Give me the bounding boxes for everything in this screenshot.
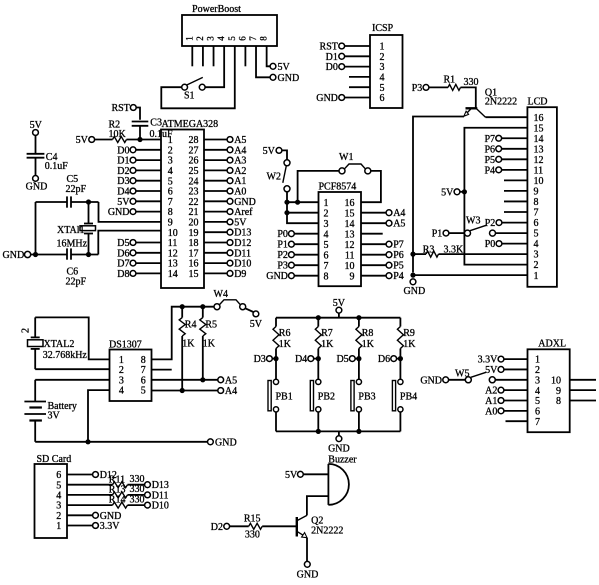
jumper W3 bbox=[465, 215, 528, 236]
wire R3 to LCD pin 3 bbox=[439, 253, 528, 255]
svg-text:PB3: PB3 bbox=[358, 392, 375, 403]
svg-text:8: 8 bbox=[556, 396, 561, 407]
svg-text:W2: W2 bbox=[267, 171, 281, 182]
IC U4 DS1307 bbox=[109, 339, 152, 401]
svg-text:A4: A4 bbox=[225, 386, 237, 397]
junction D6 bbox=[398, 356, 403, 361]
wire P3 to R1 bbox=[429, 86, 448, 88]
wire D6 node to PB4 bbox=[399, 359, 401, 380]
ATMEGA328 left pin numbers 1-14 bbox=[168, 135, 178, 280]
svg-text:D4: D4 bbox=[295, 354, 307, 365]
svg-text:14: 14 bbox=[168, 269, 178, 280]
svg-text:A1: A1 bbox=[485, 396, 497, 407]
svg-text:1: 1 bbox=[184, 36, 194, 41]
svg-text:5: 5 bbox=[227, 36, 237, 41]
terminal A0 (ADXL pin 6) bbox=[485, 406, 527, 417]
crystal XTAL1 16MHz bbox=[57, 202, 96, 255]
connector SD Card bbox=[35, 454, 72, 538]
terminal A4 (DS1307) bbox=[218, 386, 237, 397]
terminal P6 (LCD pin 13) bbox=[484, 144, 527, 155]
svg-text:A0: A0 bbox=[485, 406, 497, 417]
terminal D0 (ICSP pin 3) bbox=[326, 62, 370, 73]
svg-text:GND: GND bbox=[278, 73, 300, 84]
crystal XTAL2 32.768kHz bbox=[21, 317, 88, 369]
PCF8574 left pin numbers 1-8 bbox=[324, 198, 329, 282]
svg-text:5V: 5V bbox=[263, 146, 276, 157]
svg-text:PB1: PB1 bbox=[276, 392, 293, 403]
wire DS1307 pin 6 to A5 bbox=[152, 379, 218, 381]
svg-text:6: 6 bbox=[237, 36, 247, 41]
svg-text:D0: D0 bbox=[326, 62, 338, 73]
svg-text:3.3V: 3.3V bbox=[478, 355, 499, 366]
junction R5 top bbox=[200, 304, 205, 309]
terminal A5 (PCF pin 14) bbox=[361, 219, 405, 230]
svg-text:P0: P0 bbox=[277, 229, 288, 240]
terminal 5V (buttons) bbox=[333, 298, 346, 318]
junction R3/GND rail bbox=[410, 252, 415, 257]
wire PowerBoost pin 8 to 5V terminal bbox=[267, 46, 270, 66]
DS1307 left pin numbers 1-4 bbox=[119, 355, 124, 397]
capacitor C3 0.1uF bbox=[132, 118, 173, 141]
wire PowerBoost pin 6 stub bbox=[244, 46, 246, 66]
terminal P3 (PCF pin 7) bbox=[277, 261, 318, 272]
wire PowerBoost pin 5 to S1 bottom rail bbox=[161, 46, 234, 108]
svg-text:P7: P7 bbox=[393, 240, 404, 251]
terminal 5V (ATMEGA pin 7) bbox=[117, 197, 161, 208]
svg-text:4: 4 bbox=[324, 229, 329, 240]
wire DS1307 pin 8 to 5V rail bbox=[152, 307, 215, 360]
junction LCD pin1/GND bbox=[410, 273, 415, 278]
terminal P1 (LCD) bbox=[432, 229, 465, 240]
svg-text:16: 16 bbox=[534, 113, 544, 124]
svg-text:2: 2 bbox=[534, 260, 539, 271]
wire PB3 to bottom rail bbox=[358, 412, 360, 431]
svg-text:R3: R3 bbox=[423, 244, 435, 255]
svg-text:PB2: PB2 bbox=[318, 392, 335, 403]
terminal P6 (PCF pin 11) bbox=[361, 250, 404, 261]
svg-text:R9: R9 bbox=[403, 328, 415, 339]
wire LCD pin 7 stub bbox=[504, 211, 527, 213]
wire D4 node to PB2 bbox=[317, 359, 319, 380]
buzzer bbox=[328, 455, 357, 505]
svg-text:W4: W4 bbox=[214, 289, 228, 300]
terminal D12 (SD pin 6) bbox=[67, 470, 117, 481]
wire PowerBoost pin 2 stub bbox=[202, 46, 204, 66]
svg-text:3V: 3V bbox=[48, 411, 61, 422]
svg-text:ADXL: ADXL bbox=[538, 339, 566, 350]
junction node pin1/C3 bbox=[137, 137, 142, 142]
svg-text:15: 15 bbox=[345, 208, 355, 219]
svg-text:330: 330 bbox=[130, 494, 145, 505]
terminal D3 (ATMEGA pin 5) bbox=[117, 176, 161, 187]
svg-text:W1: W1 bbox=[339, 152, 353, 163]
svg-text:P4: P4 bbox=[393, 271, 404, 282]
svg-text:7: 7 bbox=[324, 261, 329, 272]
svg-text:10: 10 bbox=[345, 261, 355, 272]
ATMEGA328 right pin numbers 28-15 bbox=[189, 135, 199, 280]
terminal GND (PowerBoost) bbox=[270, 73, 299, 84]
terminal D4 (ATMEGA pin 6) bbox=[117, 187, 161, 198]
svg-text:GND: GND bbox=[404, 286, 426, 297]
svg-text:10K: 10K bbox=[109, 129, 127, 140]
wire GND rail (battery) bbox=[35, 441, 207, 443]
terminal D3 bbox=[254, 354, 276, 365]
wire LCD pin 10 stub bbox=[504, 179, 527, 181]
wire XTAL2 top to DS1307 pin 1 bbox=[35, 317, 109, 359]
wire D2 to R15 bbox=[230, 525, 249, 527]
svg-text:14: 14 bbox=[345, 219, 355, 230]
terminal Aref (ATMEGA pin 21) bbox=[204, 207, 253, 218]
svg-text:D10: D10 bbox=[152, 501, 169, 512]
wire GND rail to R3 bbox=[413, 253, 426, 255]
resistor R4 1K bbox=[179, 307, 196, 350]
terminal GND (LCD) bbox=[404, 279, 426, 297]
terminal 5V (ADXL pin 2) bbox=[485, 365, 527, 376]
wire PB2 to bottom rail bbox=[317, 412, 319, 431]
svg-text:D9: D9 bbox=[234, 269, 246, 280]
capacitor C4 0.1uF bbox=[27, 152, 69, 172]
terminal 5V (buzzer) bbox=[285, 470, 328, 481]
resistor R2 10K bbox=[109, 119, 127, 142]
jumper W2 bbox=[267, 160, 290, 192]
wire buzzer to Q2 collector bbox=[307, 496, 329, 515]
wire 5V to C4 bbox=[35, 136, 37, 154]
svg-text:D6: D6 bbox=[378, 354, 390, 365]
wire ADXL pin 9 lead bbox=[570, 389, 596, 391]
terminal 5V (PCF8574) bbox=[263, 146, 282, 157]
junction D5 bbox=[356, 356, 361, 361]
junction pin2 bbox=[284, 210, 289, 215]
SD Card pin numbers 6-1 bbox=[56, 470, 61, 532]
svg-text:5: 5 bbox=[324, 240, 329, 251]
wire ADXL pin 7 stub bbox=[506, 420, 528, 422]
svg-text:P2: P2 bbox=[485, 218, 496, 229]
svg-text:GND: GND bbox=[215, 437, 237, 448]
wire DS1307 pin 4 to GND rail bbox=[88, 390, 110, 442]
terminal P1 (PCF pin 5) bbox=[277, 240, 318, 251]
svg-text:0.1uF: 0.1uF bbox=[45, 161, 69, 172]
terminal P0 (LCD pin 4) bbox=[485, 239, 528, 250]
wire SD pin 3 to R14 bbox=[67, 504, 113, 506]
svg-text:11: 11 bbox=[534, 165, 544, 176]
wire Q1 collector to LCD pin 16 bbox=[486, 116, 528, 118]
svg-text:RST: RST bbox=[111, 103, 129, 114]
wire buttons bottom rail bbox=[276, 430, 400, 432]
wire RST to C3 bbox=[137, 108, 141, 120]
svg-text:10: 10 bbox=[551, 375, 561, 386]
wire R6 to D3 node bbox=[275, 349, 277, 359]
jumper W4 bbox=[214, 289, 246, 310]
terminal 3.3V (SD pin 1) bbox=[67, 521, 120, 532]
push button PB3 bbox=[351, 379, 376, 412]
terminal D2 bbox=[211, 522, 230, 533]
terminal GND (Q2) bbox=[297, 561, 319, 580]
terminal GND (W5) bbox=[420, 375, 448, 386]
wire C5 to crystal top node bbox=[71, 201, 99, 203]
terminal 5V (reset pullup) bbox=[76, 135, 95, 146]
svg-text:1K: 1K bbox=[279, 339, 292, 350]
svg-text:GND: GND bbox=[420, 375, 442, 386]
wire PowerBoost pin 7 to GND terminal bbox=[256, 46, 270, 77]
terminal D5 bbox=[336, 354, 358, 365]
svg-text:10: 10 bbox=[534, 176, 544, 187]
terminal P0 (PCF pin 4) bbox=[277, 229, 318, 240]
svg-text:GND: GND bbox=[297, 570, 319, 581]
svg-text:5V: 5V bbox=[285, 470, 298, 481]
svg-text:1K: 1K bbox=[362, 339, 375, 350]
svg-text:GND: GND bbox=[108, 207, 130, 218]
svg-text:16MHz: 16MHz bbox=[57, 239, 88, 250]
resistor R13 330 bbox=[109, 484, 145, 498]
svg-text:5: 5 bbox=[534, 229, 539, 240]
junction R4 top bbox=[180, 304, 185, 309]
svg-text:3: 3 bbox=[206, 36, 216, 41]
junction top rail col3 bbox=[356, 315, 361, 320]
wire R7 to D4 node bbox=[317, 349, 319, 359]
terminal GND (PCF pin 8) bbox=[266, 271, 318, 282]
svg-text:15: 15 bbox=[534, 123, 544, 134]
svg-text:P6: P6 bbox=[484, 144, 495, 155]
terminal RST bbox=[111, 103, 136, 114]
svg-text:2: 2 bbox=[535, 365, 540, 376]
wire PowerBoost pin 4 to S1 bbox=[205, 46, 224, 87]
svg-text:6: 6 bbox=[324, 250, 329, 261]
terminal D5 (ATMEGA pin 11) bbox=[117, 238, 161, 249]
svg-text:8: 8 bbox=[534, 197, 539, 208]
svg-text:R14: R14 bbox=[109, 495, 126, 506]
svg-text:14: 14 bbox=[534, 134, 544, 145]
wire R15 to Q2 base bbox=[262, 525, 297, 527]
wire W1 right leg to PCF pin 16 bbox=[361, 171, 381, 202]
svg-text:330: 330 bbox=[464, 77, 479, 88]
terminal P7 (LCD pin 14) bbox=[484, 134, 527, 145]
push button PB4 bbox=[392, 379, 417, 412]
push button PB1 bbox=[268, 379, 293, 412]
svg-text:5V: 5V bbox=[441, 187, 454, 198]
svg-text:P0: P0 bbox=[485, 239, 496, 250]
junction W1 branch bbox=[295, 200, 300, 205]
svg-text:5V: 5V bbox=[76, 135, 89, 146]
svg-text:PCF8574: PCF8574 bbox=[319, 181, 357, 192]
junction crystal bottom bbox=[86, 252, 91, 257]
wire bottom node to ATMEGA pin 10 bbox=[98, 231, 161, 255]
IC PowerBoost bbox=[182, 4, 277, 46]
svg-text:R5: R5 bbox=[205, 319, 217, 330]
svg-text:13: 13 bbox=[345, 229, 355, 240]
wire R8 to D5 node bbox=[358, 349, 360, 359]
wire top rail to C5 bbox=[36, 201, 68, 203]
svg-text:9: 9 bbox=[534, 187, 539, 198]
terminal D4 bbox=[295, 354, 318, 365]
terminal D10 (ATMEGA pin 16) bbox=[204, 259, 251, 270]
svg-text:3.3V: 3.3V bbox=[100, 521, 121, 532]
svg-text:A2: A2 bbox=[485, 386, 497, 397]
wire W5 to ADXL pin 3 bbox=[495, 379, 527, 381]
wire LCD pin 9 stub bbox=[504, 190, 527, 192]
wire C6 to crystal bottom node bbox=[71, 254, 98, 256]
wire PCF pin 1 bbox=[287, 201, 319, 203]
svg-text:P1: P1 bbox=[277, 240, 288, 251]
svg-text:D2: D2 bbox=[211, 522, 223, 533]
terminal A2 (ATMEGA pin 25) bbox=[204, 166, 246, 177]
connector ICSP bbox=[370, 23, 403, 108]
svg-text:9: 9 bbox=[556, 386, 561, 397]
wire SD pin 4 to R13 bbox=[67, 494, 113, 496]
svg-text:PowerBoost: PowerBoost bbox=[192, 4, 241, 15]
svg-text:R4: R4 bbox=[185, 319, 197, 330]
wire DS1307 pin 3 to battery bbox=[35, 379, 109, 381]
switch S1 bbox=[182, 77, 205, 101]
ADXL left pin numbers 1-7 bbox=[535, 355, 540, 428]
svg-text:W3: W3 bbox=[466, 215, 480, 226]
DS1307 right pin numbers 8-5 bbox=[141, 355, 146, 397]
wire W1 left leg bbox=[298, 171, 339, 202]
svg-text:13: 13 bbox=[534, 144, 544, 155]
svg-text:GND: GND bbox=[3, 250, 25, 261]
terminal D10 (via R14) bbox=[128, 501, 169, 512]
wire ADXL pin 10 lead bbox=[570, 379, 596, 381]
junction 5V LCD bbox=[462, 189, 467, 194]
terminal D7 (ATMEGA pin 13) bbox=[117, 259, 161, 270]
svg-text:A5: A5 bbox=[225, 375, 237, 386]
terminal GND (crystal) bbox=[3, 250, 31, 261]
jumper W1 bbox=[339, 152, 371, 174]
wire PowerBoost pin 1 stub bbox=[191, 46, 193, 66]
svg-text:6: 6 bbox=[380, 93, 385, 104]
resistor R5 1K bbox=[200, 307, 217, 350]
svg-text:P6: P6 bbox=[393, 250, 404, 261]
IC U3 PCF8574 bbox=[319, 181, 362, 286]
terminal GND (ATMEGA pin 8) bbox=[108, 207, 161, 218]
svg-text:1K: 1K bbox=[203, 338, 216, 349]
wire top node to ATMEGA pin 9 bbox=[99, 202, 162, 222]
resistor R15 330 bbox=[244, 513, 262, 540]
svg-text:4: 4 bbox=[534, 239, 539, 250]
svg-text:11: 11 bbox=[345, 250, 355, 261]
svg-text:3: 3 bbox=[535, 375, 540, 386]
svg-text:7: 7 bbox=[534, 208, 539, 219]
svg-text:LCD: LCD bbox=[528, 97, 548, 108]
junction bottom rail col2 bbox=[316, 429, 321, 434]
svg-text:GND: GND bbox=[328, 444, 350, 455]
PCF8574 right pin numbers 16-9 bbox=[345, 198, 355, 282]
wire XTAL2 bottom to DS1307 pin 2 bbox=[35, 368, 109, 370]
wire LCD pin 15 / pin 2 vertical bbox=[464, 128, 527, 265]
ICSP pin numbers 1-6 bbox=[380, 42, 385, 105]
svg-text:PB4: PB4 bbox=[400, 392, 417, 403]
svg-text:2: 2 bbox=[324, 208, 329, 219]
LCD pin numbers 16-1 bbox=[534, 113, 544, 282]
terminal A5 (DS1307) bbox=[218, 375, 237, 386]
svg-text:2: 2 bbox=[21, 328, 32, 333]
svg-text:R7: R7 bbox=[321, 328, 333, 339]
svg-text:GND: GND bbox=[266, 271, 288, 282]
svg-text:4: 4 bbox=[535, 386, 540, 397]
svg-text:1K: 1K bbox=[321, 339, 334, 350]
wire LCD pin 1 to GND bbox=[413, 274, 527, 276]
svg-text:R1: R1 bbox=[444, 75, 456, 86]
terminal P2 (LCD pin 6) bbox=[485, 218, 528, 229]
svg-text:1: 1 bbox=[534, 271, 539, 282]
svg-text:2: 2 bbox=[195, 36, 205, 41]
svg-text:DS1307: DS1307 bbox=[109, 339, 142, 350]
wire W2 to PCF pin 1 bbox=[286, 192, 288, 202]
junction bottom rail col3 bbox=[356, 429, 361, 434]
junction top rail col2 bbox=[316, 315, 321, 320]
terminal A0 (ATMEGA pin 23) bbox=[204, 187, 246, 198]
svg-text:12: 12 bbox=[345, 240, 355, 251]
svg-text:A5: A5 bbox=[393, 219, 405, 230]
wire DS1307 pin 7 stub bbox=[152, 369, 172, 371]
wire 5V to R2 bbox=[95, 139, 113, 141]
IC U1 ATMEGA328 bbox=[161, 119, 218, 288]
svg-text:1: 1 bbox=[324, 198, 329, 209]
terminal A3 (ATMEGA pin 26) bbox=[204, 156, 246, 167]
battery 3V bbox=[24, 380, 77, 442]
terminal P4 (PCF pin 9) bbox=[361, 271, 404, 282]
svg-text:15: 15 bbox=[189, 269, 199, 280]
terminal A1 (ATMEGA pin 24) bbox=[204, 176, 246, 187]
svg-text:ICSP: ICSP bbox=[372, 23, 394, 34]
wire Q1 emitter to GND rail bbox=[413, 117, 464, 273]
IC ADXL bbox=[528, 339, 570, 433]
terminal 5V (PowerBoost) bbox=[270, 62, 290, 73]
wire 5V to W2 bbox=[282, 150, 287, 159]
wire R1 to Q1 base bbox=[461, 87, 476, 108]
svg-text:12: 12 bbox=[534, 155, 544, 166]
svg-text:5: 5 bbox=[141, 386, 146, 397]
terminal GND (ATMEGA pin 22) bbox=[204, 197, 256, 208]
terminal P7 (PCF pin 12) bbox=[361, 240, 404, 251]
svg-text:5V: 5V bbox=[250, 319, 263, 330]
resistor R3 3.3K bbox=[423, 244, 464, 257]
wire SD pin 5 to R11 bbox=[67, 484, 113, 486]
wire R2 to ATMEGA pin 1 bbox=[127, 139, 162, 141]
junction GND rail bbox=[33, 252, 38, 257]
svg-text:3: 3 bbox=[534, 250, 539, 261]
svg-text:1K: 1K bbox=[182, 338, 195, 349]
wire D3 node to PB1 bbox=[275, 359, 277, 380]
terminal GND (DS1307) bbox=[208, 437, 237, 448]
terminal D1 (ATMEGA pin 3) bbox=[117, 156, 161, 167]
svg-text:1K: 1K bbox=[403, 339, 416, 350]
transistor Q1 2N2222 bbox=[464, 87, 517, 117]
svg-text:3: 3 bbox=[324, 219, 329, 230]
wire pins 1-2-3 vertical bbox=[287, 202, 319, 223]
terminal D6 (ATMEGA pin 12) bbox=[117, 248, 161, 259]
wire R4 to A4 row bbox=[181, 336, 183, 391]
wire DS1307 pin 5 to A4 bbox=[152, 390, 218, 392]
capacitor C5 22pF bbox=[66, 174, 87, 208]
svg-text:5: 5 bbox=[535, 396, 540, 407]
wire GND rail left vertical bbox=[35, 202, 37, 255]
svg-text:4: 4 bbox=[216, 36, 226, 41]
terminal D12 (ATMEGA pin 18) bbox=[204, 238, 251, 249]
svg-text:6: 6 bbox=[535, 406, 540, 417]
terminal D0 (ATMEGA pin 2) bbox=[117, 145, 161, 156]
terminal P5 (LCD pin 12) bbox=[484, 155, 527, 166]
svg-text:XTAL2: XTAL2 bbox=[44, 339, 75, 350]
svg-text:0.1uF: 0.1uF bbox=[150, 129, 174, 140]
push button PB2 bbox=[310, 379, 335, 412]
terminal A4 (ATMEGA pin 27) bbox=[204, 145, 246, 156]
svg-text:P3: P3 bbox=[277, 261, 288, 272]
wire C4 to GND bbox=[35, 158, 37, 176]
svg-text:7: 7 bbox=[535, 417, 540, 428]
wire R9 to D6 node bbox=[399, 349, 401, 359]
svg-text:1: 1 bbox=[535, 355, 540, 366]
svg-text:R15: R15 bbox=[244, 513, 261, 524]
